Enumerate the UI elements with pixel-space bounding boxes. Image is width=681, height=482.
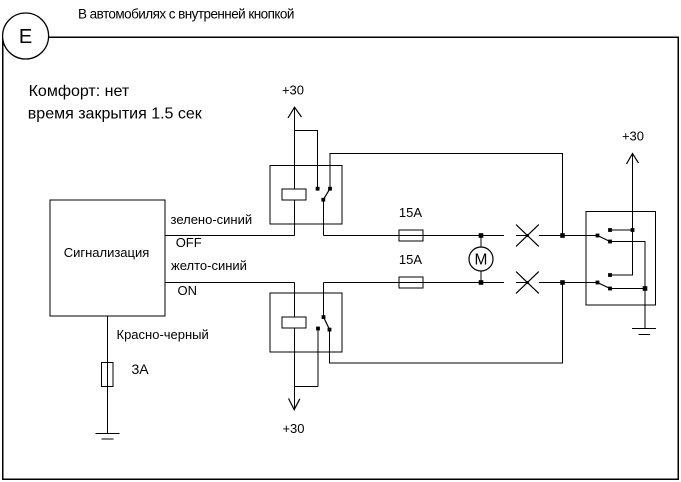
svg-text:15А: 15А — [399, 252, 422, 267]
svg-text:желто-синий: желто-синий — [171, 258, 247, 273]
svg-text:3А: 3А — [132, 361, 150, 377]
svg-text:В автомобилях с внутренней кно: В автомобилях с внутренней кнопкой — [78, 7, 294, 22]
svg-text:М: М — [475, 251, 488, 268]
svg-text:Сигнализация: Сигнализация — [64, 245, 150, 260]
svg-text:Комфорт: нет: Комфорт: нет — [29, 83, 130, 100]
svg-text:+30: +30 — [282, 421, 304, 436]
svg-text:E: E — [19, 26, 32, 48]
svg-text:время закрытия 1.5 сек: время закрытия 1.5 сек — [28, 106, 203, 123]
svg-text:ON: ON — [178, 283, 198, 298]
svg-text:OFF: OFF — [176, 235, 202, 250]
svg-text:+30: +30 — [282, 83, 304, 98]
svg-text:15А: 15А — [399, 205, 422, 220]
svg-text:Красно-черный: Красно-черный — [117, 327, 209, 342]
svg-text:зелено-синий: зелено-синий — [171, 212, 253, 227]
svg-text:+30: +30 — [622, 129, 644, 144]
